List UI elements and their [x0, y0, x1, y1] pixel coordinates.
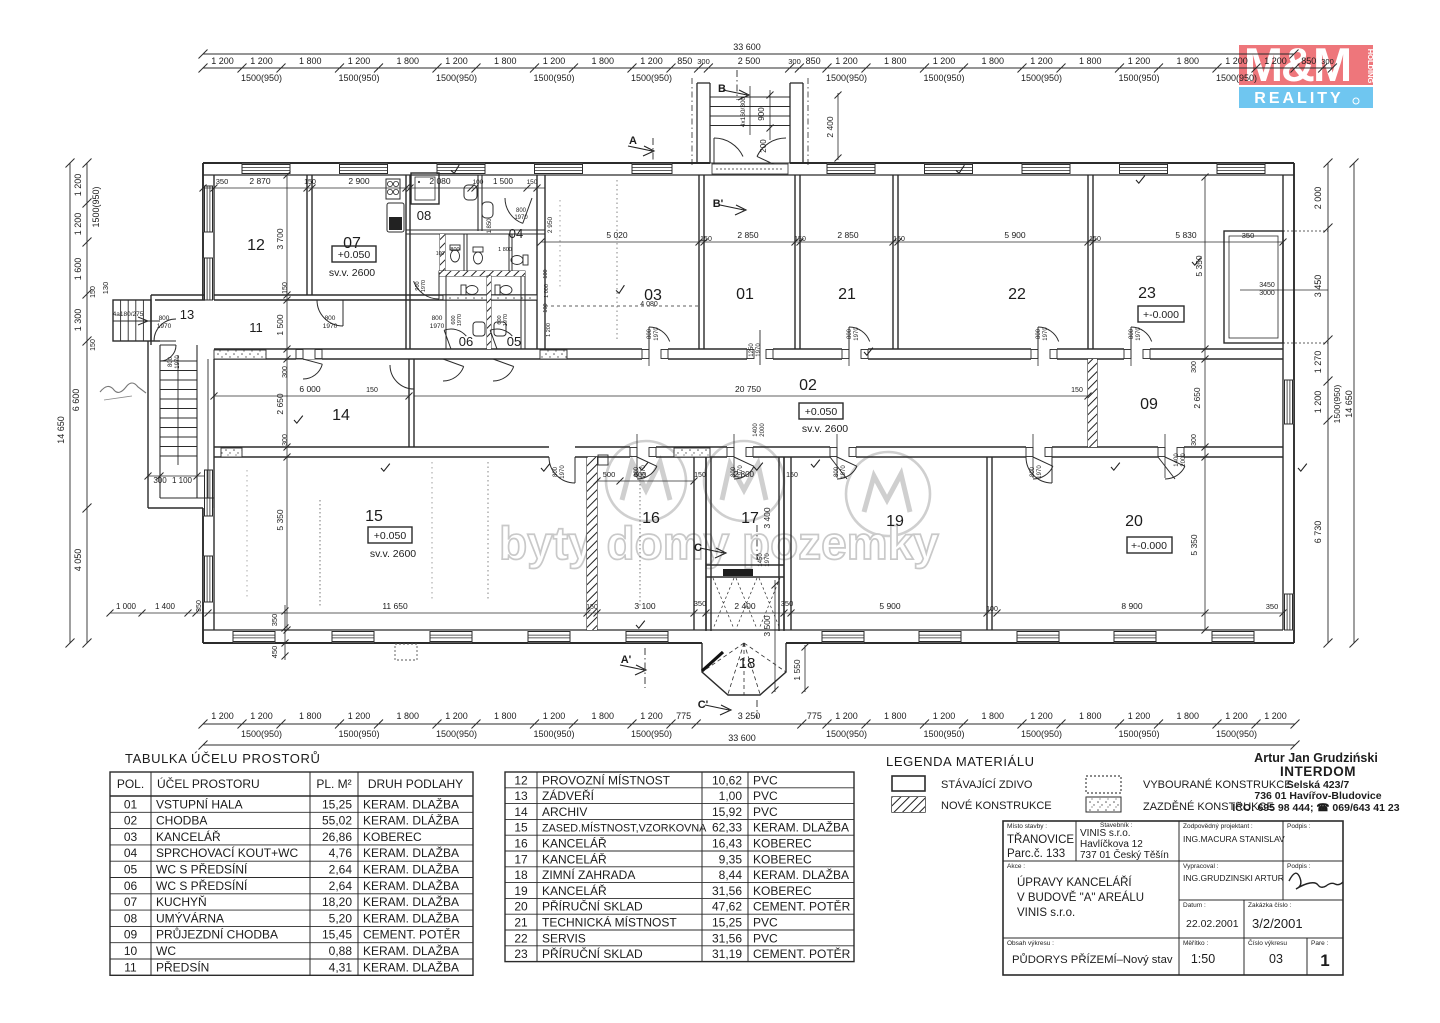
svg-text:1500(950): 1500(950)	[91, 186, 101, 227]
svg-text:20 750: 20 750	[735, 384, 761, 394]
svg-text:+0.050: +0.050	[338, 249, 371, 261]
svg-text:14 650: 14 650	[1344, 390, 1354, 418]
svg-text:100: 100	[473, 179, 484, 186]
svg-text:Vypracoval :: Vypracoval :	[1183, 863, 1219, 870]
svg-text:A': A'	[621, 654, 632, 666]
svg-text:1500(950): 1500(950)	[1118, 729, 1159, 739]
svg-text:PVC: PVC	[753, 789, 778, 803]
svg-text:1970: 1970	[323, 323, 338, 330]
svg-text:1970: 1970	[457, 314, 463, 326]
svg-text:5 350: 5 350	[275, 509, 285, 531]
svg-text:KERAM. DLAŽBA: KERAM. DLAŽBA	[363, 878, 459, 893]
svg-text:C': C'	[698, 699, 709, 711]
svg-text:2 080: 2 080	[429, 176, 451, 186]
svg-text:Číslo výkresu: Číslo výkresu	[1248, 938, 1287, 947]
svg-text:KERAM. DLAŽBA: KERAM. DLAŽBA	[363, 862, 459, 877]
svg-text:1 850: 1 850	[487, 218, 493, 234]
svg-text:100: 100	[543, 269, 549, 278]
svg-text:Parc.č. 133: Parc.č. 133	[1007, 848, 1065, 860]
svg-text:1500(950): 1500(950)	[631, 729, 672, 739]
svg-text:08: 08	[124, 911, 138, 925]
svg-text:1 200: 1 200	[1313, 391, 1323, 414]
svg-text:PVC: PVC	[753, 931, 778, 945]
svg-text:5,20: 5,20	[329, 911, 353, 925]
svg-text:800: 800	[325, 315, 336, 322]
svg-text:ZÁDVEŘÍ: ZÁDVEŘÍ	[542, 788, 595, 803]
svg-text:Datum :: Datum :	[1183, 902, 1206, 909]
svg-text:1 600: 1 600	[73, 258, 83, 281]
svg-text:850: 850	[677, 56, 692, 66]
svg-text:1500(950): 1500(950)	[338, 729, 379, 739]
svg-text:2 400: 2 400	[734, 601, 756, 611]
svg-text:300: 300	[282, 434, 289, 446]
svg-text:03: 03	[1269, 952, 1283, 966]
svg-text:100: 100	[543, 303, 549, 312]
svg-text:5 900: 5 900	[1004, 230, 1026, 240]
svg-text:POL.: POL.	[117, 777, 144, 791]
svg-text:1970: 1970	[514, 215, 528, 221]
svg-text:1 200: 1 200	[348, 711, 371, 721]
svg-text:Pare :: Pare :	[1311, 940, 1329, 947]
svg-text:350: 350	[781, 599, 794, 608]
svg-text:1 200: 1 200	[1030, 56, 1053, 66]
svg-text:2000: 2000	[760, 423, 766, 437]
svg-text:150: 150	[786, 472, 798, 479]
svg-text:Akce :: Akce :	[1007, 863, 1025, 870]
svg-text:1 200: 1 200	[445, 56, 468, 66]
svg-text:0,88: 0,88	[329, 944, 353, 958]
svg-text:HOLDING: HOLDING	[1366, 49, 1375, 84]
svg-text:UMÝVÁRNA: UMÝVÁRNA	[156, 910, 224, 925]
svg-text:PVC: PVC	[753, 805, 778, 819]
svg-text:CHODBA: CHODBA	[156, 814, 207, 828]
svg-text:PŘÍRUČNÍ SKLAD: PŘÍRUČNÍ SKLAD	[542, 899, 643, 914]
svg-text:PRŮJEZDNÍ CHODBA: PRŮJEZDNÍ CHODBA	[156, 927, 278, 942]
svg-text:900: 900	[757, 107, 766, 121]
svg-text:1 800: 1 800	[884, 711, 907, 721]
svg-text:6 000: 6 000	[299, 384, 321, 394]
svg-text:3 700: 3 700	[275, 228, 285, 250]
svg-text:1 800: 1 800	[299, 56, 322, 66]
svg-text:1970: 1970	[503, 314, 509, 326]
svg-text:130: 130	[101, 282, 110, 295]
svg-text:22: 22	[1008, 286, 1026, 303]
svg-text:1500(950): 1500(950)	[923, 729, 964, 739]
svg-text:1 800: 1 800	[1176, 56, 1199, 66]
svg-text:18,20: 18,20	[322, 895, 352, 909]
svg-text:WC: WC	[156, 944, 176, 958]
svg-text:6 600: 6 600	[71, 389, 81, 412]
svg-text:33 600: 33 600	[728, 733, 756, 743]
svg-text:150: 150	[1089, 236, 1101, 243]
svg-text:1 800: 1 800	[981, 56, 1004, 66]
svg-text:1 200: 1 200	[1128, 56, 1151, 66]
svg-text:8 900: 8 900	[1121, 601, 1143, 611]
svg-text:sv.v. 2600: sv.v. 2600	[802, 423, 848, 435]
svg-text:2 800: 2 800	[734, 470, 755, 479]
svg-text:1 800: 1 800	[1176, 711, 1199, 721]
svg-text:1500(950): 1500(950)	[241, 729, 282, 739]
svg-text:1 000: 1 000	[116, 602, 137, 611]
svg-text:09: 09	[1140, 396, 1158, 413]
svg-text:850: 850	[806, 56, 821, 66]
svg-text:16: 16	[642, 510, 660, 527]
svg-text:19: 19	[514, 884, 528, 898]
svg-text:150: 150	[1071, 387, 1083, 394]
svg-text:800: 800	[1129, 328, 1135, 339]
svg-text:1970: 1970	[175, 355, 181, 369]
svg-text:IČO: 695 98 444; ☎ 069/643 41: IČO: 695 98 444; ☎ 069/643 41 23	[1232, 801, 1399, 814]
svg-text:Havlíčkova 12: Havlíčkova 12	[1080, 839, 1143, 850]
svg-text:1:50: 1:50	[1191, 952, 1215, 966]
svg-text:3 100: 3 100	[634, 601, 656, 611]
svg-text:20: 20	[1125, 513, 1143, 530]
svg-text:KANCELÁŘ: KANCELÁŘ	[542, 883, 607, 898]
svg-text:350: 350	[270, 614, 279, 627]
svg-text:1500(950): 1500(950)	[1021, 73, 1062, 83]
svg-text:KANCELÁŘ: KANCELÁŘ	[156, 829, 221, 844]
svg-text:150: 150	[694, 472, 706, 479]
svg-text:Zodpovědný projektant :: Zodpovědný projektant :	[1183, 823, 1253, 830]
svg-text:3 500: 3 500	[762, 615, 772, 637]
svg-text:WC S PŘEDSÍNÍ: WC S PŘEDSÍNÍ	[156, 862, 248, 877]
svg-text:2 400: 2 400	[825, 116, 835, 138]
svg-text:CEMENT. POTĚR: CEMENT. POTĚR	[363, 927, 461, 942]
svg-text:1500(950): 1500(950)	[338, 73, 379, 83]
svg-text:1970: 1970	[1043, 327, 1049, 341]
svg-text:KERAM. DLAŽBA: KERAM. DLAŽBA	[363, 910, 459, 925]
svg-text:15,25: 15,25	[322, 797, 352, 811]
svg-text:NOVÉ KONSTRUKCE: NOVÉ KONSTRUKCE	[941, 799, 1052, 812]
svg-text:4a180/275: 4a180/275	[113, 311, 144, 318]
svg-text:800: 800	[847, 328, 853, 339]
svg-text:1 200: 1 200	[211, 56, 234, 66]
svg-text:PVC: PVC	[753, 916, 778, 930]
svg-text:sv.v. 2600: sv.v. 2600	[329, 267, 375, 279]
svg-text:8,44: 8,44	[719, 868, 743, 882]
svg-text:2 850: 2 850	[737, 230, 759, 240]
svg-text:100: 100	[436, 251, 445, 257]
svg-text:PL. M²: PL. M²	[316, 777, 351, 791]
svg-text:737 01 Český Těšín: 737 01 Český Těšín	[1080, 848, 1169, 861]
svg-text:800: 800	[159, 315, 170, 322]
svg-text:Artur Jan Grudziński: Artur Jan Grudziński	[1254, 751, 1378, 765]
svg-text:4,76: 4,76	[329, 846, 353, 860]
svg-text:1970: 1970	[854, 327, 860, 341]
svg-text:55,02: 55,02	[322, 814, 352, 828]
svg-text:CEMENT. POTĚR: CEMENT. POTĚR	[753, 946, 851, 961]
svg-text:850: 850	[1301, 56, 1316, 66]
svg-text:1 000: 1 000	[544, 284, 550, 298]
svg-text:31,56: 31,56	[712, 884, 742, 898]
svg-text:6 730: 6 730	[1313, 521, 1323, 544]
svg-text:1 200: 1 200	[546, 323, 552, 337]
svg-text:1 200: 1 200	[1264, 56, 1287, 66]
svg-text:2,64: 2,64	[329, 879, 353, 893]
svg-text:2 650: 2 650	[1192, 387, 1202, 409]
svg-text:PROVOZNÍ MÍSTNOST: PROVOZNÍ MÍSTNOST	[542, 772, 671, 787]
svg-text:20: 20	[514, 900, 528, 914]
svg-text:13: 13	[514, 789, 528, 803]
svg-text:1 800: 1 800	[494, 56, 517, 66]
svg-text:KERAM. DLÁŽBA: KERAM. DLÁŽBA	[363, 813, 459, 828]
svg-text:04: 04	[509, 226, 523, 241]
svg-text:800: 800	[450, 247, 459, 253]
svg-text:300: 300	[1191, 361, 1198, 373]
svg-text:200: 200	[759, 139, 768, 153]
svg-text:1 200: 1 200	[1264, 711, 1287, 721]
svg-text:byty domy pozemky: byty domy pozemky	[499, 517, 939, 569]
svg-text:1 200: 1 200	[543, 56, 566, 66]
svg-text:3 400: 3 400	[762, 507, 772, 529]
svg-text:2 870: 2 870	[249, 176, 271, 186]
svg-text:1970: 1970	[560, 465, 566, 479]
svg-text:4 080: 4 080	[640, 301, 658, 308]
svg-text:1 200: 1 200	[640, 56, 663, 66]
svg-text:1 200: 1 200	[250, 711, 273, 721]
svg-text:1 800: 1 800	[591, 56, 614, 66]
svg-text:350: 350	[216, 177, 229, 186]
svg-text:31,19: 31,19	[712, 947, 742, 961]
svg-text:VSTUPNÍ HALA: VSTUPNÍ HALA	[156, 796, 243, 811]
svg-text:1 800: 1 800	[498, 247, 512, 253]
svg-text:KUCHYŇ: KUCHYŇ	[156, 894, 207, 909]
svg-text:LEGENDA MATERIÁLU: LEGENDA MATERIÁLU	[886, 754, 1035, 769]
svg-text:B': B'	[713, 198, 724, 210]
svg-text:06: 06	[459, 334, 473, 349]
svg-text:TŘANOVICE: TŘANOVICE	[1007, 833, 1074, 846]
svg-text:23: 23	[1138, 285, 1156, 302]
svg-text:1 400: 1 400	[155, 602, 176, 611]
svg-text:SPRCHOVACÍ KOUT+WC: SPRCHOVACÍ KOUT+WC	[156, 845, 298, 860]
svg-text:KANCELÁŘ: KANCELÁŘ	[542, 836, 607, 851]
svg-text:PŘÍRUČNÍ SKLAD: PŘÍRUČNÍ SKLAD	[542, 946, 643, 961]
svg-text:1 200: 1 200	[933, 56, 956, 66]
svg-text:1 800: 1 800	[884, 56, 907, 66]
svg-text:1970: 1970	[1037, 465, 1043, 479]
svg-text:ZASED.MÍSTNOST,VZORKOVNA: ZASED.MÍSTNOST,VZORKOVNA	[542, 822, 707, 835]
svg-text:KOBEREC: KOBEREC	[753, 852, 812, 866]
svg-text:1 200: 1 200	[73, 213, 83, 236]
svg-text:150: 150	[586, 604, 598, 611]
svg-text:15: 15	[365, 508, 383, 525]
svg-text:1 200: 1 200	[933, 711, 956, 721]
svg-text:PVC: PVC	[753, 773, 778, 787]
svg-text:1970: 1970	[421, 280, 427, 292]
svg-text:18: 18	[739, 655, 756, 672]
svg-text:ÚPRAVY KANCELÁŘÍ: ÚPRAVY KANCELÁŘÍ	[1017, 876, 1132, 889]
svg-text:1 200: 1 200	[1225, 56, 1248, 66]
svg-text:150: 150	[90, 286, 97, 298]
svg-text:1 200: 1 200	[835, 56, 858, 66]
svg-text:150: 150	[527, 179, 538, 186]
svg-text:100: 100	[986, 606, 998, 613]
svg-text:ARCHIV: ARCHIV	[542, 805, 587, 819]
svg-text:19: 19	[886, 513, 904, 530]
svg-text:01: 01	[124, 797, 138, 811]
svg-text:15,92: 15,92	[712, 805, 742, 819]
svg-text:1 200: 1 200	[250, 56, 273, 66]
svg-text:11: 11	[249, 320, 263, 335]
svg-text:+-0.000: +-0.000	[1131, 540, 1167, 552]
svg-text:VINIS s.r.o.: VINIS s.r.o.	[1080, 828, 1131, 839]
svg-text:TECHNICKÁ MÍSTNOST: TECHNICKÁ MÍSTNOST	[542, 915, 677, 930]
svg-text:C: C	[694, 542, 702, 554]
svg-text:17: 17	[741, 510, 759, 527]
svg-text:600: 600	[634, 470, 647, 479]
svg-text:150: 150	[282, 282, 289, 294]
svg-text:+0.050: +0.050	[805, 406, 838, 418]
svg-text:V BUDOVĚ "A" AREÁLU: V BUDOVĚ "A" AREÁLU	[1017, 891, 1144, 904]
svg-text:31,56: 31,56	[712, 931, 742, 945]
svg-text:300: 300	[1321, 57, 1334, 66]
svg-text:14: 14	[332, 407, 350, 424]
svg-text:KOBEREC: KOBEREC	[753, 837, 812, 851]
svg-text:1500(950): 1500(950)	[533, 729, 574, 739]
svg-text:350: 350	[1242, 231, 1255, 240]
svg-text:1 800: 1 800	[396, 56, 419, 66]
svg-text:A: A	[629, 135, 637, 147]
svg-text:ING.GRUDZINSKI ARTUR: ING.GRUDZINSKI ARTUR	[1183, 873, 1284, 883]
svg-text:21: 21	[514, 916, 528, 930]
svg-text:Podpis :: Podpis :	[1287, 823, 1311, 830]
svg-text:3450: 3450	[1259, 282, 1275, 289]
svg-text:300: 300	[788, 57, 801, 66]
svg-text:4x160/300: 4x160/300	[740, 96, 747, 127]
svg-text:2 850: 2 850	[837, 230, 859, 240]
svg-text:1970: 1970	[157, 323, 172, 330]
svg-text:150: 150	[893, 236, 905, 243]
svg-text:16: 16	[514, 837, 528, 851]
svg-text:1400: 1400	[753, 423, 759, 437]
svg-text:KOBEREC: KOBEREC	[363, 830, 422, 844]
svg-text:1500(950): 1500(950)	[826, 73, 867, 83]
svg-text:500: 500	[603, 470, 616, 479]
svg-text:300: 300	[697, 57, 710, 66]
svg-text:5 830: 5 830	[1175, 230, 1197, 240]
svg-text:12: 12	[514, 773, 528, 787]
svg-text:07: 07	[124, 895, 138, 909]
svg-text:800: 800	[432, 315, 443, 322]
svg-text:14: 14	[514, 805, 528, 819]
svg-text:PŘEDSÍN: PŘEDSÍN	[156, 959, 209, 974]
svg-text:05: 05	[507, 334, 521, 349]
svg-text:1 800: 1 800	[981, 711, 1004, 721]
svg-text:1 300: 1 300	[73, 309, 83, 332]
svg-text:TABULKA ÚČELU PROSTORŮ: TABULKA ÚČELU PROSTORŮ	[125, 751, 321, 766]
svg-text:5 350: 5 350	[1189, 534, 1199, 556]
svg-text:STÁVAJÍCÍ ZDIVO: STÁVAJÍCÍ ZDIVO	[941, 778, 1033, 791]
svg-text:02: 02	[124, 814, 138, 828]
svg-text:1 200: 1 200	[211, 711, 234, 721]
svg-text:800: 800	[516, 208, 527, 214]
svg-text:150: 150	[794, 236, 806, 243]
svg-text:1500(950): 1500(950)	[1021, 729, 1062, 739]
svg-text:1 800: 1 800	[494, 711, 517, 721]
svg-text:12: 12	[247, 237, 265, 254]
svg-text:300: 300	[153, 476, 167, 485]
svg-text:1: 1	[1320, 951, 1329, 970]
svg-text:1970: 1970	[765, 553, 771, 567]
svg-text:150: 150	[304, 179, 316, 186]
svg-text:62,33: 62,33	[712, 821, 742, 835]
svg-text:800: 800	[834, 466, 840, 477]
svg-text:33 600: 33 600	[733, 42, 761, 52]
svg-text:3 250: 3 250	[738, 711, 761, 721]
svg-text:INTERDOM: INTERDOM	[1280, 764, 1356, 779]
svg-text:DRUH PODLAHY: DRUH PODLAHY	[368, 777, 463, 791]
svg-text:14 650: 14 650	[56, 416, 66, 444]
svg-text:KANCELÁŘ: KANCELÁŘ	[542, 851, 607, 866]
svg-text:1500(950): 1500(950)	[923, 73, 964, 83]
svg-text:3/2/2001: 3/2/2001	[1252, 916, 1303, 931]
svg-text:300: 300	[1191, 434, 1198, 446]
svg-text:26,86: 26,86	[322, 830, 352, 844]
svg-text:1 200: 1 200	[73, 174, 83, 197]
svg-text:1 800: 1 800	[396, 711, 419, 721]
svg-text:REALITY: REALITY	[1254, 90, 1343, 107]
svg-text:ÚČEL PROSTORU: ÚČEL PROSTORU	[157, 776, 260, 791]
svg-text:1 200: 1 200	[445, 711, 468, 721]
svg-text:775: 775	[676, 711, 691, 721]
svg-text:03: 03	[124, 830, 138, 844]
svg-text:2 950: 2 950	[547, 216, 554, 233]
svg-text:+-0.000: +-0.000	[1143, 309, 1179, 321]
svg-text:06: 06	[124, 879, 138, 893]
svg-text:2 650: 2 650	[275, 393, 285, 415]
svg-text:15: 15	[514, 821, 528, 835]
svg-text:350: 350	[196, 600, 203, 612]
svg-text:1 800: 1 800	[299, 711, 322, 721]
svg-text:1400: 1400	[1174, 453, 1180, 467]
svg-text:1970: 1970	[1136, 327, 1142, 341]
svg-text:1,00: 1,00	[719, 789, 743, 803]
svg-text:08: 08	[417, 208, 431, 223]
svg-text:10,62: 10,62	[712, 773, 742, 787]
svg-text:VINIS s.r.o.: VINIS s.r.o.	[1017, 907, 1075, 919]
svg-text:sv.v. 2600: sv.v. 2600	[370, 548, 416, 560]
svg-text:B: B	[718, 83, 726, 95]
svg-text:KERAM. DLAŽBA: KERAM. DLAŽBA	[363, 796, 459, 811]
svg-text:KOBEREC: KOBEREC	[753, 884, 812, 898]
svg-text:4 050: 4 050	[73, 549, 83, 572]
svg-text:1500(950): 1500(950)	[1332, 384, 1342, 423]
svg-text:KERAM. DLAŽBA: KERAM. DLAŽBA	[363, 845, 459, 860]
svg-text:Měřítko :: Měřítko :	[1183, 940, 1208, 947]
svg-text:1500(950): 1500(950)	[436, 729, 477, 739]
svg-text:+0.050: +0.050	[374, 530, 407, 542]
svg-text:04: 04	[124, 846, 138, 860]
svg-text:13: 13	[180, 307, 194, 322]
svg-text:1 200: 1 200	[1225, 711, 1248, 721]
svg-text:1450: 1450	[758, 553, 764, 567]
svg-text:2000: 2000	[1181, 453, 1187, 467]
svg-text:CEMENT. POTĚR: CEMENT. POTĚR	[753, 899, 851, 914]
svg-text:1 500: 1 500	[493, 177, 514, 186]
svg-text:5 350: 5 350	[1194, 255, 1204, 277]
svg-text:WC S PŘEDSÍNÍ: WC S PŘEDSÍNÍ	[156, 878, 248, 893]
svg-text:350: 350	[694, 599, 707, 608]
svg-text:1500(950): 1500(950)	[1118, 73, 1159, 83]
svg-text:22.02.2001: 22.02.2001	[1186, 918, 1239, 930]
svg-text:16,43: 16,43	[712, 837, 742, 851]
svg-text:01: 01	[736, 286, 754, 303]
svg-text:11: 11	[124, 960, 137, 974]
svg-text:775: 775	[807, 711, 822, 721]
svg-text:SERVIS: SERVIS	[542, 931, 586, 945]
svg-text:KERAM. DLAŽBA: KERAM. DLAŽBA	[363, 894, 459, 909]
svg-text:1500(950): 1500(950)	[1216, 729, 1257, 739]
